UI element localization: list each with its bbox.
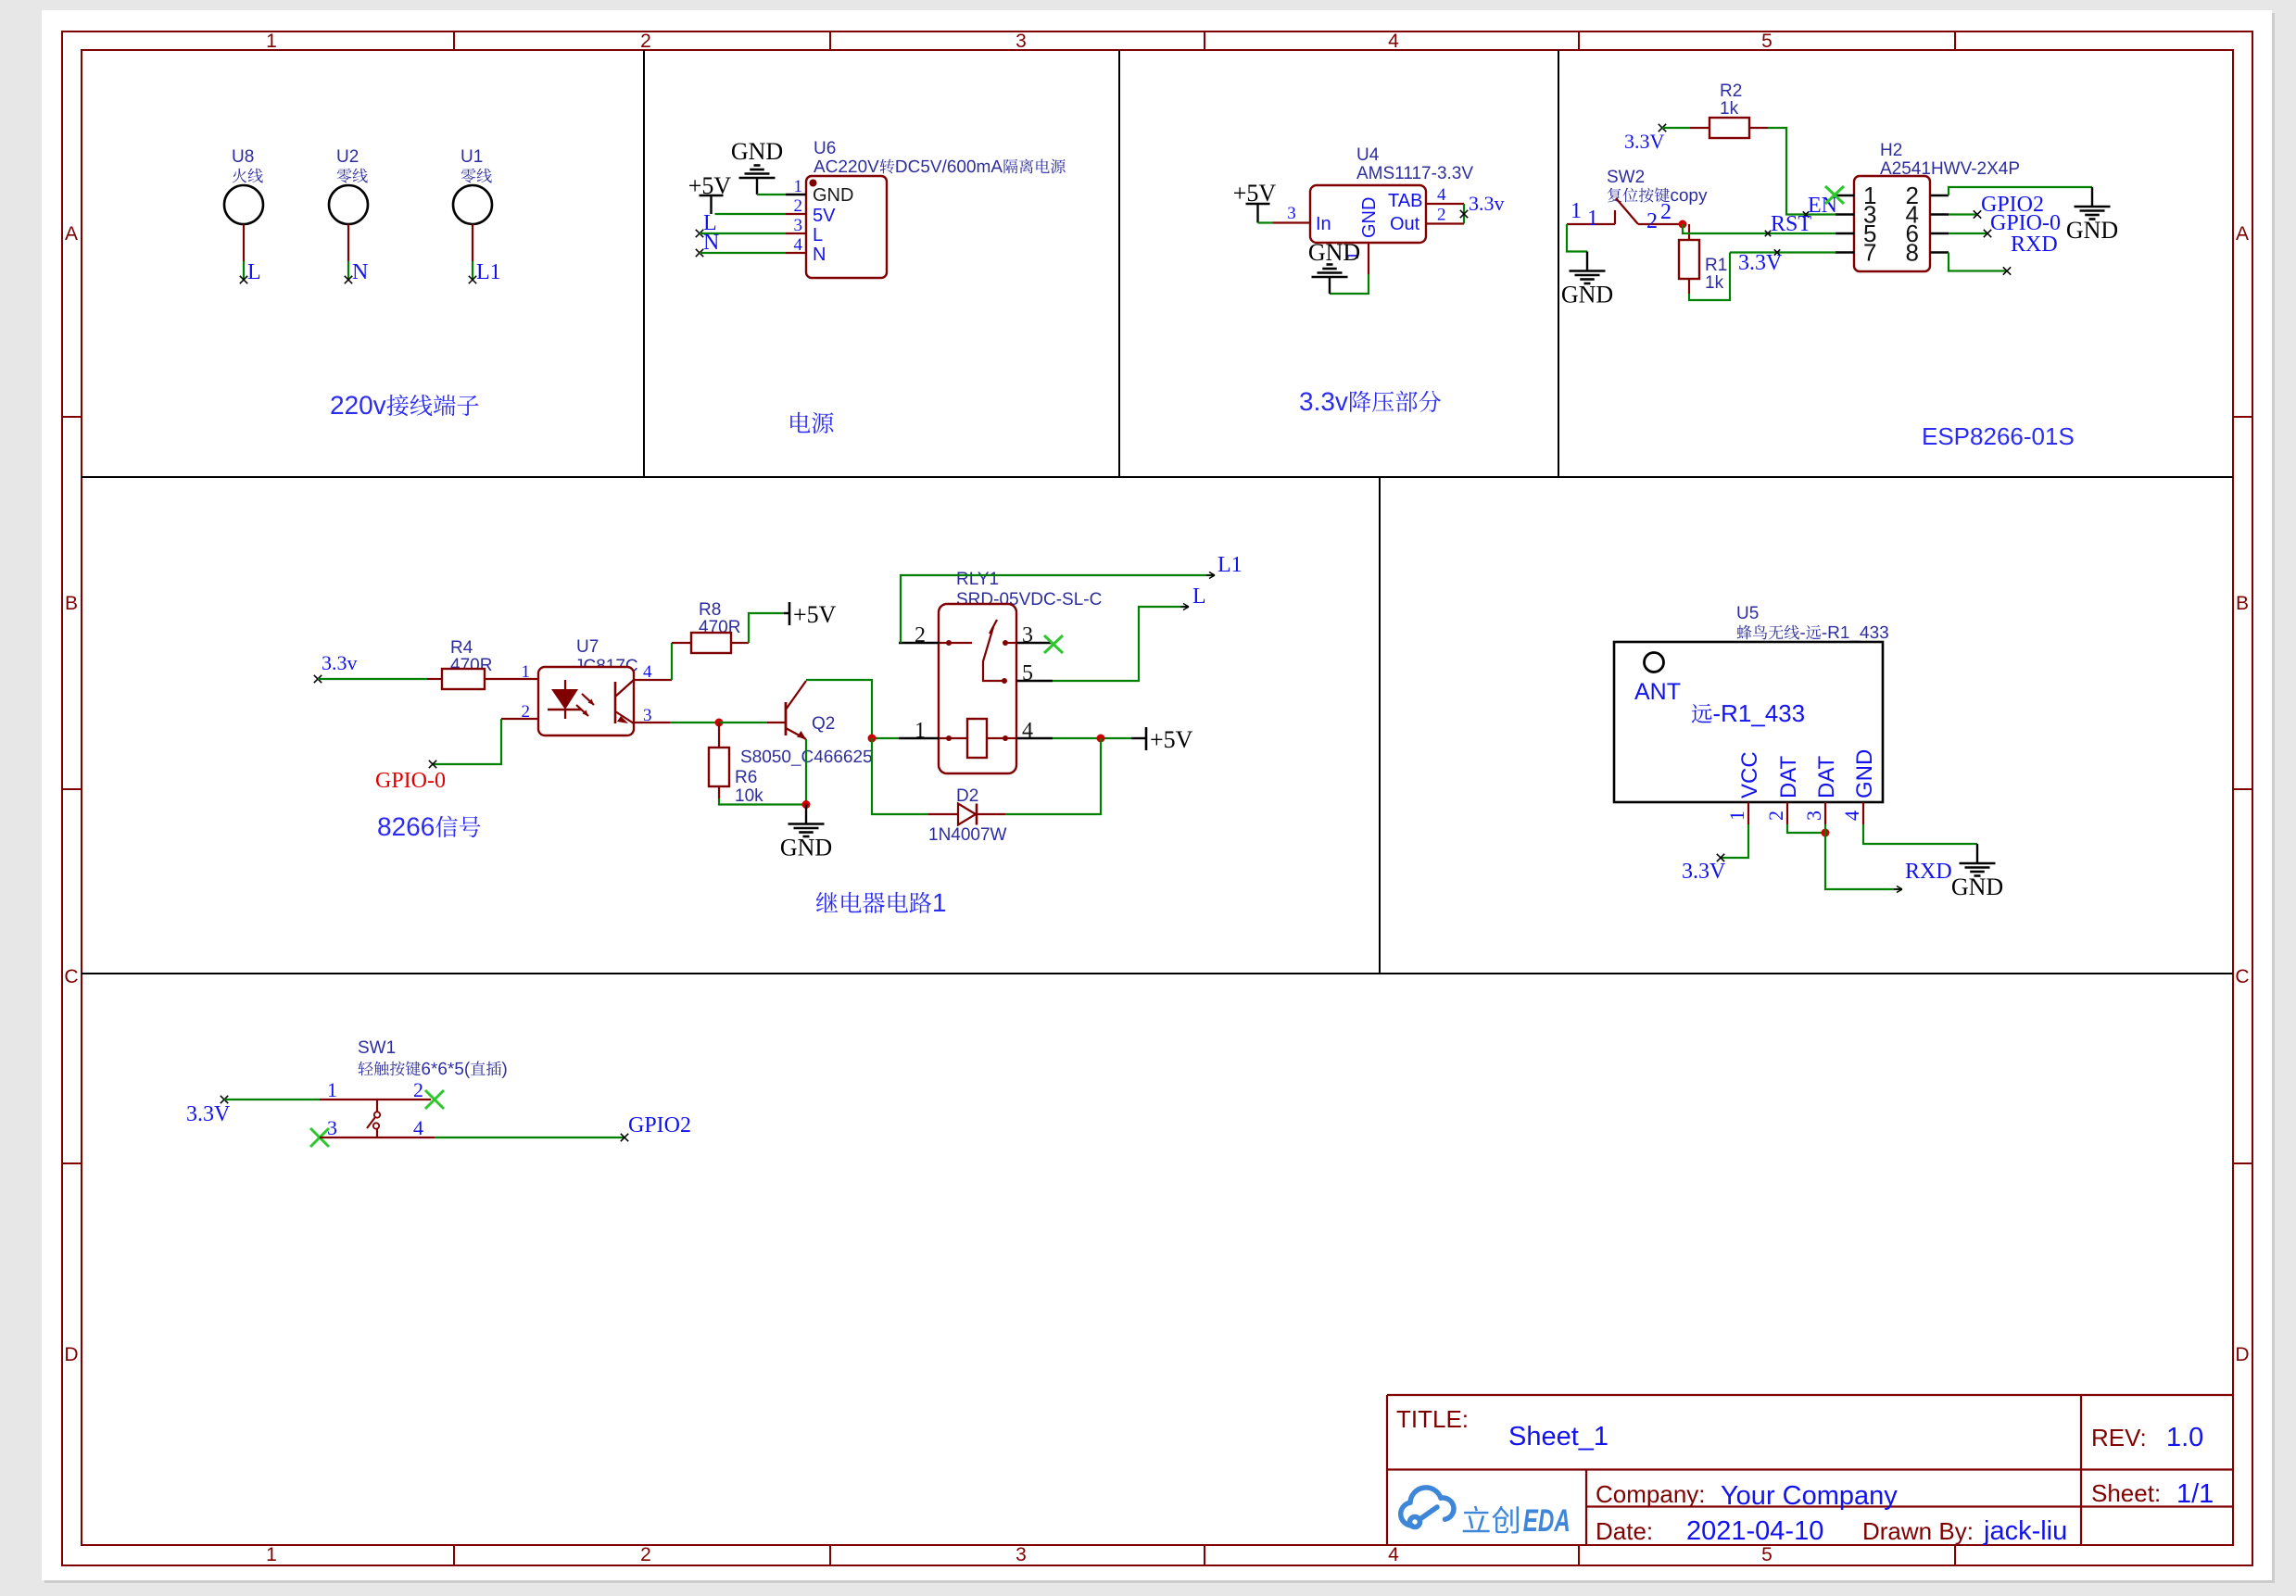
node L1 [469, 276, 476, 283]
svg-text:REV:: REV: [2091, 1424, 2147, 1451]
wire [1463, 204, 1465, 224]
svg-text:3: 3 [327, 1116, 337, 1139]
pin 3 wire [634, 722, 670, 723]
wire GPIO-0 [433, 719, 501, 764]
logo lceda cloud [1401, 1488, 1454, 1527]
svg-text:Sheet:: Sheet: [2091, 1479, 2161, 1507]
junction [1097, 735, 1105, 743]
net port N [696, 249, 703, 257]
svg-text:L1: L1 [476, 260, 501, 284]
svg-text:GND: GND [1308, 239, 1360, 266]
svg-text:1: 1 [1725, 811, 1748, 821]
svg-text:1: 1 [266, 1544, 277, 1565]
svg-text:L1: L1 [1217, 553, 1243, 577]
svg-text:TITLE:: TITLE: [1396, 1405, 1469, 1433]
svg-text:5: 5 [1761, 1544, 1772, 1565]
column ticks bottom [453, 1545, 455, 1565]
svg-text:A: A [2236, 223, 2249, 245]
no-connect X relay pin3 [1044, 635, 1063, 653]
svg-text:GND: GND [731, 138, 783, 165]
pin 3 stub [1273, 221, 1310, 223]
svg-text:L: L [247, 260, 261, 284]
wire GND [1863, 824, 1977, 844]
wire [700, 252, 786, 254]
svg-text:2: 2 [1660, 200, 1672, 224]
ground symbol [1329, 278, 1331, 294]
wire [719, 722, 767, 723]
net port L [696, 230, 703, 237]
svg-text:N: N [703, 231, 719, 255]
svg-text:R1: R1 [1705, 256, 1727, 275]
svg-text:2: 2 [640, 1544, 651, 1565]
svg-text:D: D [2235, 1344, 2249, 1365]
svg-text:4: 4 [413, 1116, 423, 1139]
wire emitter [805, 739, 807, 805]
wire [749, 613, 784, 643]
section divider v2 [1118, 50, 1120, 477]
wire [719, 798, 806, 805]
svg-text:L: L [813, 225, 823, 245]
svg-text:AMS1117-3.3V: AMS1117-3.3V [1356, 164, 1473, 183]
svg-text:GND: GND [1951, 873, 2003, 900]
no-connect X SW1 pin2 [425, 1090, 444, 1109]
wire [243, 224, 245, 261]
section divider v4 [1379, 477, 1381, 974]
svg-text:5: 5 [1761, 31, 1772, 52]
pin1 indicator dot [810, 180, 817, 187]
svg-text:U2: U2 [336, 147, 359, 167]
wire D2 anode [872, 738, 928, 814]
no-connect X pin1 [1825, 186, 1844, 204]
svg-text:2: 2 [1437, 206, 1446, 225]
svg-text:3.3V: 3.3V [1624, 130, 1665, 153]
svg-text:VCC: VCC [1737, 751, 1762, 798]
svg-text:2: 2 [1764, 811, 1787, 821]
pin 2 stub [501, 718, 538, 720]
section label 继电器电路1 [816, 892, 945, 913]
section label 3.3v降压部分 [1300, 391, 1441, 412]
relay contact pins [946, 640, 952, 646]
wire [318, 678, 427, 680]
no-connect X SW1 pin3 [310, 1128, 329, 1147]
svg-text:Q2: Q2 [812, 714, 835, 734]
svg-text:GND: GND [2066, 217, 2118, 244]
svg-text:C: C [2235, 966, 2249, 987]
svg-text:2: 2 [413, 1078, 423, 1101]
svg-text:4: 4 [1840, 811, 1863, 821]
wire L1 [901, 575, 1215, 643]
wire GPIO2 [435, 1137, 624, 1138]
svg-text:GPIO2: GPIO2 [628, 1113, 691, 1137]
svg-text:1N4007W: 1N4007W [928, 825, 1007, 845]
section label 220v接线端子 [331, 395, 478, 416]
LED inside U7 [564, 680, 566, 689]
svg-text:5V: 5V [813, 206, 836, 226]
SW1 row2 [320, 1137, 435, 1138]
svg-text:In: In [1316, 214, 1331, 234]
svg-text:R2: R2 [1720, 82, 1742, 101]
svg-text:4: 4 [794, 235, 803, 255]
resistor R6 [718, 723, 720, 748]
logo lceda text [1463, 1506, 1519, 1534]
svg-text:RXD: RXD [1905, 860, 1952, 884]
svg-text:R6: R6 [735, 768, 757, 787]
label 远-R1_433 [1692, 704, 1804, 727]
svg-text:7: 7 [1863, 239, 1876, 267]
wire pin2 to GND [1949, 187, 2092, 195]
svg-text:1k: 1k [1705, 273, 1724, 293]
svg-text:N: N [352, 260, 368, 284]
svg-text:3.3V: 3.3V [186, 1102, 231, 1126]
svg-text:R8: R8 [699, 600, 721, 620]
svg-text:SW1: SW1 [358, 1038, 396, 1058]
svg-text:U8: U8 [232, 147, 254, 167]
pin stubs H2 right [1930, 195, 1949, 196]
wire [1768, 128, 1836, 215]
svg-text:DAT: DAT [1776, 755, 1801, 798]
svg-text:3.3V: 3.3V [1738, 251, 1783, 275]
svg-text:GND: GND [813, 185, 853, 206]
junction [1679, 220, 1687, 229]
svg-text:Drawn By:: Drawn By: [1862, 1517, 1974, 1545]
wire [1330, 274, 1369, 294]
svg-text:1k: 1k [1720, 99, 1739, 119]
pin stubs U5 [1747, 802, 1749, 824]
svg-text:L: L [1192, 584, 1206, 609]
svg-text:3.3v: 3.3v [322, 651, 358, 674]
wire 3.3V [221, 1096, 228, 1103]
svg-text:3: 3 [1802, 811, 1825, 821]
wire VCC 3.3V [1721, 824, 1748, 858]
svg-text:RLY1: RLY1 [956, 570, 999, 589]
svg-text:GND: GND [1359, 197, 1380, 238]
power flag +5V right [1131, 737, 1145, 739]
svg-text:1: 1 [327, 1078, 337, 1101]
svg-text:Your Company: Your Company [1721, 1481, 1898, 1511]
svg-text:GND: GND [1852, 749, 1877, 798]
net port 3.3v [314, 675, 322, 683]
ground symbol GND [2091, 187, 2093, 206]
svg-text:C: C [64, 966, 78, 987]
ANT circle [1645, 653, 1664, 672]
wire RXD [1825, 824, 1902, 889]
power flag +5V [700, 195, 724, 197]
wire [1662, 127, 1690, 129]
svg-text:1: 1 [266, 31, 277, 52]
junction [802, 800, 811, 809]
svg-text:U1: U1 [460, 147, 483, 167]
svg-text:Date:: Date: [1596, 1517, 1653, 1545]
svg-text:+5V: +5V [1150, 726, 1193, 753]
section divider horizontal BC [82, 973, 2233, 974]
svg-text:1: 1 [1571, 199, 1582, 223]
svg-text:B: B [2236, 593, 2249, 614]
row ticks left [62, 416, 82, 418]
light arrows [576, 694, 594, 716]
wire [715, 213, 787, 215]
svg-text:+5V: +5V [793, 601, 837, 628]
phototransistor inside U7 [614, 682, 617, 723]
net port 3.3V [1659, 124, 1666, 132]
svg-text:ANT: ANT [1634, 679, 1681, 705]
wire coil right [1053, 737, 1131, 739]
svg-text:1/1: 1/1 [2176, 1479, 2214, 1509]
row ticks right [2233, 416, 2252, 418]
svg-text:10k: 10k [735, 786, 763, 806]
svg-text:2: 2 [640, 31, 651, 52]
SW1 mechanism [376, 1100, 378, 1112]
pin 4 stub [1426, 203, 1464, 205]
title block lines [1387, 1394, 2233, 1396]
ground flag GND [756, 179, 758, 195]
svg-text:+5V: +5V [1233, 180, 1277, 207]
wire [1689, 253, 1730, 301]
svg-text:ESP8266-01S: ESP8266-01S [1922, 422, 2075, 450]
pin 4 wire to R8 [634, 679, 672, 681]
svg-text:R4: R4 [450, 638, 473, 658]
pin stubs H2 left [1836, 195, 1854, 196]
svg-text:3: 3 [794, 216, 803, 235]
svg-text:EDA: EDA [1523, 1503, 1571, 1539]
wire RST [1683, 224, 1836, 233]
wire [1258, 221, 1274, 223]
svg-text:B: B [65, 593, 78, 614]
wire [1567, 224, 1587, 252]
svg-text:A: A [65, 223, 78, 245]
wire [757, 194, 786, 195]
node L [240, 276, 247, 283]
wire D2 cathode [1005, 738, 1101, 814]
svg-text:1: 1 [1587, 207, 1598, 231]
svg-text:RXD: RXD [2011, 232, 2058, 257]
svg-text:Out: Out [1390, 214, 1420, 234]
wire L [1053, 607, 1189, 681]
node N [345, 276, 352, 283]
svg-text:3: 3 [1016, 31, 1027, 52]
svg-text:RST: RST [1771, 212, 1811, 236]
svg-text:U7: U7 [576, 637, 599, 657]
svg-text:1: 1 [522, 662, 531, 682]
svg-text:3: 3 [1287, 204, 1296, 223]
svg-text:2: 2 [1646, 209, 1658, 233]
svg-text:U4: U4 [1356, 145, 1380, 165]
section label 8266信号 [378, 816, 480, 837]
svg-text:4: 4 [1388, 31, 1399, 52]
pin stubs relay [899, 642, 939, 644]
wire [472, 224, 473, 261]
pin stubs U6 [786, 194, 806, 195]
svg-text:SW2: SW2 [1607, 168, 1645, 187]
wire collector [806, 680, 872, 738]
junction [1822, 829, 1830, 837]
svg-text:DAT: DAT [1814, 755, 1839, 798]
wire GPIO-0 [1949, 232, 1987, 234]
wire GPIO2 [1949, 213, 1977, 215]
svg-text:Sheet_1: Sheet_1 [1508, 1422, 1608, 1451]
wire [347, 224, 349, 261]
svg-text:Company:: Company: [1596, 1480, 1706, 1508]
section label 电源 [790, 412, 833, 434]
svg-text:8: 8 [1906, 239, 1919, 267]
net 3.3v [1460, 210, 1468, 218]
svg-text:U6: U6 [814, 139, 836, 158]
svg-text:jack-liu: jack-liu [1983, 1516, 2067, 1546]
svg-text:1.0: 1.0 [2166, 1423, 2203, 1452]
wire 3.3V to pin7 [1730, 251, 1836, 253]
svg-text:TAB: TAB [1388, 191, 1422, 211]
svg-text:3.3V: 3.3V [1682, 860, 1726, 884]
svg-text:4: 4 [1388, 1544, 1399, 1565]
junction [868, 735, 877, 743]
SW1 row1 [320, 1099, 431, 1100]
svg-text:3.3v: 3.3v [1469, 192, 1505, 215]
svg-text:GND: GND [1561, 282, 1613, 308]
svg-text:U5: U5 [1736, 604, 1759, 623]
resistor R1 [1688, 224, 1690, 240]
power flag +5V right [784, 612, 789, 614]
wire coil left [872, 737, 899, 739]
svg-text:D: D [64, 1344, 78, 1365]
section divider v3 [1558, 50, 1559, 477]
section divider v1 [643, 50, 645, 477]
svg-text:+5V: +5V [688, 172, 732, 199]
svg-text:2: 2 [794, 196, 803, 216]
wire DAT2 [1787, 824, 1825, 833]
ground symbol GND [805, 805, 807, 823]
relay coil [946, 735, 952, 741]
section divider horizontal AB [82, 476, 2233, 478]
net label EN [1803, 211, 1809, 217]
ground symbol GND [1976, 844, 1978, 862]
power flag +5V [1246, 203, 1270, 206]
svg-text:4: 4 [1437, 185, 1446, 205]
svg-text:3: 3 [1016, 1544, 1027, 1565]
svg-text:GPIO-0: GPIO-0 [375, 769, 446, 793]
junction [715, 719, 724, 727]
svg-text:GND: GND [780, 835, 832, 861]
svg-text:H2: H2 [1880, 141, 1902, 160]
pin 1 stub GND [1368, 243, 1369, 274]
relay armature [983, 620, 1004, 681]
ground symbol GND [1586, 252, 1588, 270]
wire [700, 232, 786, 234]
column ticks top [453, 31, 455, 50]
svg-text:2021-04-10: 2021-04-10 [1686, 1516, 1823, 1546]
svg-text:4: 4 [643, 662, 652, 682]
svg-text:D2: D2 [956, 786, 978, 806]
wire RXD [1949, 253, 2007, 271]
svg-text:N: N [813, 245, 826, 265]
pin 2 stub [1426, 222, 1464, 224]
